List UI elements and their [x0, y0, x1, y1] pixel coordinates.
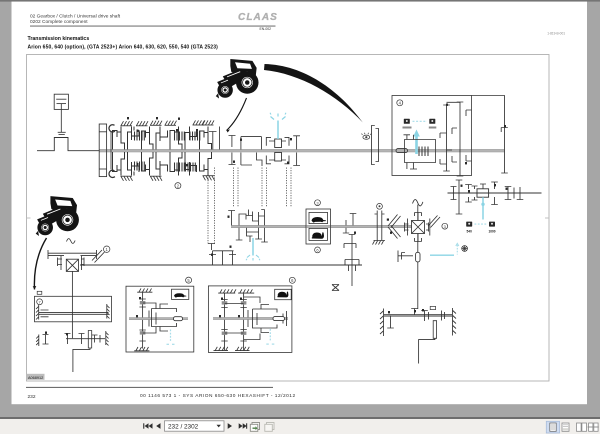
housing wall hatch group 5: [193, 120, 205, 125]
selector rail pair B (dashed): [233, 168, 235, 208]
next page button: [228, 423, 232, 429]
box5 step connectors: [143, 303, 156, 333]
pto front shaft: [66, 338, 105, 340]
box6 gear column B: [240, 293, 246, 350]
snail icon: [312, 232, 324, 239]
previous view icon: [250, 423, 259, 432]
mode button ECO: [429, 119, 435, 124]
label circle 7: [37, 299, 43, 305]
splitter collar lower: [275, 153, 282, 162]
cyan pto engage arrow: [456, 244, 459, 255]
box6 bottom hatch A: [214, 347, 229, 351]
box6 shaft band: [213, 318, 288, 320]
selector rail pair A (dashed): [208, 168, 291, 244]
housing wall hatch group 3: [150, 121, 162, 126]
page number box: [165, 421, 225, 431]
label circle 3 top: [315, 200, 321, 206]
rear diff top and bottom gears: [415, 213, 422, 242]
figure number label A068912: [27, 374, 45, 380]
rear differential: [412, 221, 425, 234]
rear drop shaft: [417, 234, 419, 310]
pto stub shaft icon: [462, 246, 468, 252]
coupling eye symbol: [362, 133, 372, 139]
side output gear: [398, 251, 413, 263]
clutch pack K2 plates: [175, 132, 185, 141]
box6 top hatch B: [238, 289, 254, 293]
housing wall hatch group 1: [121, 121, 133, 126]
front output down shaft: [71, 271, 73, 296]
box7 wall hatch left: [36, 305, 39, 320]
label circle 4: [397, 100, 403, 106]
svg-text:1000: 1000: [488, 229, 495, 233]
label circle 6 below: [315, 247, 321, 253]
svg-text:00 1146 573 1 - SYS ARION 650-: 00 1146 573 1 - SYS ARION 650-630 HEXASH…: [140, 393, 296, 399]
cyan lever arrow: [413, 130, 420, 155]
pto rear output jog: [419, 338, 435, 363]
range gearset upper drums: [113, 127, 125, 150]
svg-text:CLAAS: CLAAS: [238, 12, 278, 23]
clutch pack K4 plates: [135, 162, 145, 171]
box6 bottom hatch B: [235, 347, 250, 351]
transfer box 4 outline: [392, 96, 472, 176]
engine piston: [54, 94, 68, 109]
box5 clutch outline: [152, 304, 177, 331]
detail box 6: [208, 286, 292, 353]
front differential: [66, 259, 78, 271]
splitter gear group lower: [229, 153, 301, 167]
tiny gear tooth-count labels: [45, 104, 508, 336]
pto front hatch right: [106, 331, 109, 346]
selector rail pair D (dashed): [286, 168, 288, 208]
pto gear pair right: [472, 182, 524, 205]
svg-text:A068912: A068912: [28, 376, 43, 380]
box7 axle lines: [39, 310, 109, 317]
front axle box 7: [35, 296, 112, 322]
transfer gear caps: [440, 110, 472, 164]
svg-text:540: 540: [467, 229, 473, 233]
pto front clutch bar: [88, 331, 91, 349]
box6 clutch outline: [253, 305, 287, 333]
svg-text:Arion 650, 640 (option), (GTA: Arion 650, 640 (option), (GTA 2523+) Ari…: [28, 44, 219, 50]
box5 cyan selector: [167, 330, 175, 345]
housing lower hatch group 1: [121, 176, 133, 181]
svg-text:232: 232: [28, 394, 36, 400]
front diff ring gear: [48, 250, 97, 259]
pto shaft: [448, 192, 542, 194]
clutch pack K6 plates: [186, 163, 196, 172]
pto speed button 540: [466, 222, 472, 227]
drop shaft coupling pill: [416, 252, 420, 262]
frame fold tick right: [545, 217, 549, 219]
lower left bearing gear: [43, 335, 49, 345]
single page mode icon (selected): [546, 421, 559, 433]
tractor 1: [216, 59, 259, 98]
curved arrow tractor2: [34, 238, 46, 290]
input pill: [396, 149, 408, 153]
4wd engage clutch icon: [377, 203, 383, 209]
flexible coupling plates: [372, 126, 379, 165]
front drive bevel shaft: [344, 235, 359, 287]
transfer gears in box: [443, 105, 452, 171]
splitter collar upper: [275, 139, 282, 148]
label circle 3 at diff: [442, 223, 448, 229]
pto speed button 1000: [489, 222, 495, 227]
housing wall hatch group 2: [136, 121, 148, 126]
front bevel joint: [332, 285, 339, 291]
first page button: [145, 423, 149, 428]
housing lower hatch group 3: [203, 176, 215, 181]
previous page button: [156, 423, 160, 429]
svg-text:02 Gearbox / Clutch / Universa: 02 Gearbox / Clutch / Universal drive sh…: [30, 13, 121, 19]
layshaft gears lower: [236, 228, 268, 242]
label circle 6: [289, 277, 295, 283]
bevel pinion squiggle: [413, 200, 423, 206]
thin arrow to schematic: [227, 98, 247, 131]
clutch spring C top: [109, 125, 115, 132]
pto clutch box: [477, 189, 489, 197]
box6 top hatch A: [218, 289, 236, 293]
box5 tortoise frame: [172, 289, 189, 299]
pto gear tall: [456, 180, 463, 214]
rail end gear: [208, 244, 215, 251]
tortoise icon: [312, 217, 326, 223]
output branch to PTO: [472, 96, 508, 174]
footer rule: [26, 386, 273, 389]
clutch housing: [99, 124, 106, 177]
box5 gear column: [139, 292, 145, 348]
final drive axle: [384, 314, 452, 316]
front diff side gears: [58, 256, 85, 271]
label circle 5: [186, 277, 192, 283]
swoosh arrow to gearbox: [264, 64, 363, 123]
box5 input shaft band: [129, 318, 188, 320]
sensor icon above box 7: [37, 291, 42, 294]
svg-text:1-819-B-001: 1-819-B-001: [547, 32, 565, 36]
clutch pack K5 plates: [175, 163, 185, 172]
label circle 1: [104, 246, 110, 252]
housing wall hatch group 6: [202, 120, 214, 125]
rear diff side gears: [405, 219, 430, 236]
crankshaft plateau: [37, 138, 99, 151]
final drive housing wall right: [453, 308, 457, 336]
detail box 5: [126, 286, 194, 352]
clutch pack K1 plates: [135, 132, 145, 141]
tractor 2: [36, 196, 79, 236]
next view icon (disabled): [265, 423, 274, 432]
last page button: [239, 423, 243, 428]
svg-text:EN-002: EN-002: [260, 27, 272, 31]
final drive housing wall left: [380, 309, 384, 337]
box6 step connectors: [225, 297, 261, 340]
sensor icon: [430, 306, 435, 309]
highlighted selector 2 (cyan): [246, 238, 260, 261]
two-up page mode icon: [577, 423, 582, 431]
svg-text:232 / 2302: 232 / 2302: [168, 424, 199, 431]
layshaft gears upper: [228, 210, 264, 226]
housing wall hatch group 4: [165, 121, 177, 126]
clutch spring C bottom: [109, 170, 115, 177]
box5 top hatch: [137, 288, 152, 292]
4wd clutch plates: [375, 211, 385, 241]
cone synchro right of diff: [428, 216, 440, 228]
svg-text:0202 Complete component: 0202 Complete component: [30, 19, 88, 25]
box6 snail frame: [275, 289, 292, 299]
window top edge: [0, 0, 600, 2]
through shaft in box7: [71, 296, 73, 338]
clutch legs: [404, 135, 418, 169]
splitter gear group upper: [229, 136, 301, 150]
front drive gear cluster: [209, 251, 236, 265]
toolbar dark separator: [0, 417, 600, 419]
output gear T before rails: [209, 127, 220, 150]
box6 output pill: [273, 317, 285, 321]
box5 output pill: [174, 317, 183, 321]
cyan mode arrow dashes: [413, 120, 428, 122]
final drive clutch bar: [433, 321, 436, 339]
clutch pack K3 plates: [190, 132, 200, 141]
final drive gears: [387, 309, 444, 329]
layshaft gear at 353: [343, 214, 357, 234]
highlighted selector (cyan): [270, 113, 286, 139]
selector rail pair C (dashed): [261, 168, 263, 208]
two-up continuous mode icon: [589, 423, 593, 431]
cone synchro slashes: [388, 215, 401, 239]
front axle drive line: [80, 264, 362, 266]
box5 bottom hatch: [134, 347, 149, 351]
u-joint slashes: [92, 250, 105, 263]
svg-text:Transmission kinematics: Transmission kinematics: [28, 36, 90, 42]
front diff squiggle: [67, 239, 76, 244]
continuous page mode icon: [562, 423, 569, 431]
box6 gear column A: [221, 293, 227, 350]
lower left hatch: [36, 335, 39, 347]
toolbar background: [0, 419, 600, 434]
pto gear pair left: [451, 185, 472, 203]
box7 wall hatch right: [107, 304, 110, 319]
pto front gears: [65, 334, 101, 345]
4wd clutch hatch: [373, 241, 386, 245]
layshaft (gray band): [231, 225, 412, 227]
pto front output jog: [73, 348, 90, 372]
box6 gear blobs: [222, 301, 228, 304]
powershift clutch box: [405, 140, 436, 163]
label circle 2: [175, 183, 181, 189]
cyan pto mode dashes: [475, 223, 488, 225]
header rule: [30, 25, 276, 28]
box5 gear blobs: [140, 301, 146, 304]
main input shaft (gray band): [99, 150, 505, 152]
box6 cyan selector: [266, 329, 274, 344]
frame fold tick left: [27, 217, 31, 219]
cyan pto engage line: [430, 254, 454, 256]
range gearset lower drums: [113, 152, 125, 176]
mode button Navig: [404, 119, 410, 124]
cyan pto selector: [481, 197, 484, 219]
tortoise/hare shift box: [306, 209, 331, 244]
schematic frame: [27, 55, 550, 382]
engine conrod: [60, 104, 62, 133]
housing lower hatch group 2: [150, 176, 162, 181]
